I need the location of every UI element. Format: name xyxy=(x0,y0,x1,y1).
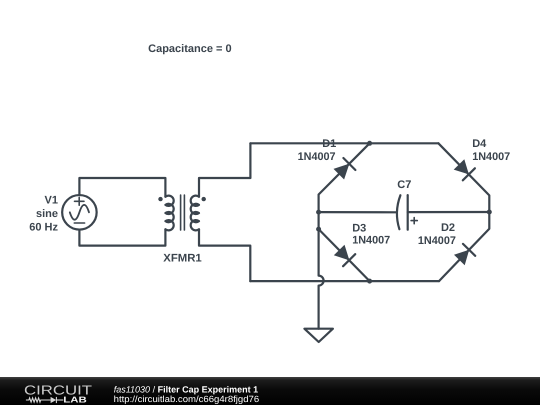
svg-text:1N4007: 1N4007 xyxy=(352,235,390,247)
junction node: top rail xyxy=(367,141,372,146)
svg-text:1N4007: 1N4007 xyxy=(418,235,456,247)
transformer secondary polarity dot xyxy=(202,197,206,201)
V1 sine symbol xyxy=(70,205,89,220)
wire: mid rail right of C7 xyxy=(408,211,490,213)
svg-text:LAB: LAB xyxy=(63,395,86,405)
capacitor C7 curved plate xyxy=(397,195,400,229)
svg-text:60 Hz: 60 Hz xyxy=(29,222,58,234)
svg-text:D2: D2 xyxy=(441,222,455,234)
diode D1 wire xyxy=(319,143,370,212)
footer logo diode triangle xyxy=(51,397,57,403)
svg-text:D3: D3 xyxy=(352,223,366,235)
svg-text:XFMR1: XFMR1 xyxy=(163,253,202,265)
V1 minus sign xyxy=(74,222,84,224)
diode D3 wire xyxy=(319,229,370,281)
svg-text:http://circuitlab.com/c66g4r8f: http://circuitlab.com/c66g4r8fjgd76 xyxy=(114,394,260,404)
wire: V1 bottom to transformer primary bottom xyxy=(79,229,165,245)
wire: secondary bottom to bottom rail xyxy=(199,229,250,281)
junction node: left mid xyxy=(316,210,321,215)
svg-text:D1: D1 xyxy=(322,138,336,150)
junction node: right mid xyxy=(487,210,492,215)
diode D2 cathode bar xyxy=(463,244,475,256)
V1 plus sign xyxy=(75,197,85,205)
wire: ground drop with hop over bottom rail xyxy=(319,229,324,329)
svg-text:sine: sine xyxy=(36,208,58,220)
diode D4 triangle xyxy=(454,159,469,174)
junction node: D3 anode xyxy=(316,227,321,232)
capacitor C7 plus sign xyxy=(411,218,417,224)
svg-text:C7: C7 xyxy=(397,179,411,191)
wire: bottom rail xyxy=(250,280,439,282)
svg-text:1N4007: 1N4007 xyxy=(298,151,336,163)
svg-text:1N4007: 1N4007 xyxy=(472,151,510,163)
diode D4 wire xyxy=(438,143,489,212)
wire: mid rail left of C7 xyxy=(319,211,397,213)
junction node: bottom rail xyxy=(367,279,372,284)
svg-text:Capacitance = 0: Capacitance = 0 xyxy=(148,43,231,55)
transformer XFMR1 primary coil xyxy=(165,196,173,231)
footer logo wire with resistor and diode xyxy=(26,397,63,403)
svg-text:V1: V1 xyxy=(45,195,58,207)
voltage source V1 xyxy=(62,195,97,230)
ground symbol xyxy=(304,329,333,342)
transformer core lines xyxy=(181,195,185,230)
diode D4 cathode bar xyxy=(463,168,475,180)
footer bar xyxy=(0,377,540,405)
diode D3 cathode bar xyxy=(343,254,355,266)
wire: secondary top to top rail xyxy=(199,143,250,196)
svg-text:D4: D4 xyxy=(472,138,487,150)
diode D1 triangle xyxy=(334,164,350,180)
wire: top rail xyxy=(250,142,438,144)
capacitor C7 straight plate xyxy=(407,195,409,230)
diode D2 triangle xyxy=(454,250,469,266)
wire: left node down to D3 junction xyxy=(318,212,320,229)
diode D2 wire xyxy=(439,212,489,281)
diode D3 triangle xyxy=(334,245,350,261)
transformer primary polarity dot xyxy=(158,197,162,201)
transformer XFMR1 secondary coil xyxy=(191,196,199,231)
wire: V1 top to transformer primary top xyxy=(79,178,165,197)
diode D1 cathode bar xyxy=(343,158,355,170)
